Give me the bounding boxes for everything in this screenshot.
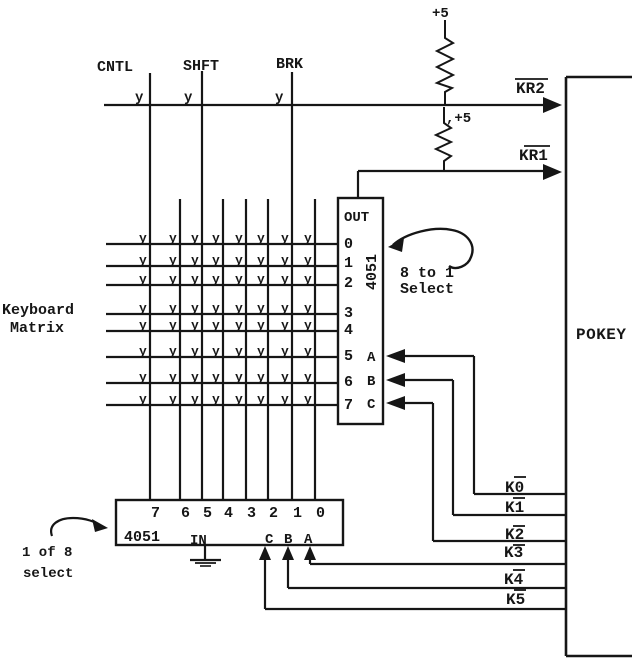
wire K2 net [433,540,566,542]
label +5 (R1 top) [432,6,449,22]
label 4051 (U1, rotated) [364,254,381,290]
svg-text:5: 5 [203,505,212,522]
svg-text:y: y [257,344,265,359]
svg-text:K2: K2 [505,526,524,544]
svg-text:Keyboard: Keyboard [2,302,74,319]
pin label C (U1) [367,397,376,413]
key y (BRK row) [275,90,284,106]
svg-text:B: B [284,532,293,548]
svg-text:y: y [235,253,243,268]
svg-text:y: y [212,370,220,385]
svg-text:K3: K3 [504,544,523,562]
arrow into U2 pin C [259,546,271,560]
arrow into U2 pin A [304,546,316,560]
svg-text:y: y [304,370,312,385]
arrow into U1 pin B [386,373,405,387]
svg-text:y: y [235,301,243,316]
svg-text:y: y [191,318,199,333]
keyboard matrix key contacts (y) [139,231,312,407]
svg-text:K4: K4 [504,571,524,589]
svg-text:y: y [304,344,312,359]
svg-text:y: y [169,231,177,246]
svg-text:y: y [139,272,147,287]
label 4051 (U2) [124,529,160,546]
arrow into POKEY (KR2) [543,97,562,113]
svg-text:7: 7 [344,397,353,414]
svg-text:y: y [281,231,289,246]
svg-text:y: y [304,301,312,316]
svg-text:y: y [304,318,312,333]
wire K0 net [474,493,566,495]
wire K1 net [453,514,566,516]
svg-text:y: y [281,253,289,268]
svg-text:select: select [23,566,73,582]
svg-text:7: 7 [151,505,160,522]
svg-text:y: y [281,318,289,333]
svg-text:y: y [235,344,243,359]
svg-text:y: y [281,344,289,359]
svg-text:4: 4 [224,505,233,522]
svg-text:y: y [212,231,220,246]
label 1 of 8 select [22,545,73,582]
label POKEY [576,326,627,344]
label K4 (overbar) [504,570,525,589]
svg-text:y: y [257,253,265,268]
svg-text:8 to 1: 8 to 1 [400,265,454,282]
svg-text:1: 1 [344,255,353,272]
label K3 (overbar) [504,544,525,562]
wire matrix column 8 (CNTL) [149,73,151,500]
svg-text:y: y [139,392,147,407]
svg-text:3: 3 [344,305,353,322]
pin label C (U2) [265,532,274,548]
annotation arrow (1 of 8 select) [51,518,108,536]
svg-text:OUT: OUT [344,210,369,226]
wire KR1 from 4051 OUT [358,171,545,199]
wire K5 net [265,558,566,609]
pin label B (U1) [367,374,376,390]
svg-text:y: y [191,370,199,385]
wire K4 net [288,558,566,588]
label KR2 (overbar) [515,79,548,98]
svg-text:y: y [212,253,220,268]
svg-text:y: y [257,231,265,246]
wire matrix column 5 (c4) [222,199,224,500]
svg-text:BRK: BRK [276,56,303,73]
svg-text:y: y [304,253,312,268]
pin label B (U2) [284,532,293,548]
svg-text:y: y [139,370,147,385]
svg-text:y: y [169,344,177,359]
svg-text:y: y [281,301,289,316]
svg-text:y: y [139,231,147,246]
svg-text:y: y [281,370,289,385]
svg-text:y: y [235,392,243,407]
svg-text:y: y [212,392,220,407]
wire matrix row 7 to 4051 pin 7 [106,404,338,406]
svg-text:0: 0 [316,505,325,522]
label BRK [276,56,303,73]
svg-text:6: 6 [344,374,353,391]
svg-text:A: A [367,350,376,366]
label KR1 (overbar) [519,146,550,165]
wire select A (U1) from K0 net [402,356,474,494]
svg-text:C: C [367,397,376,413]
wire matrix column 3 (c6) [267,199,269,500]
svg-text:K0: K0 [505,479,524,497]
wire K3 net [310,558,566,564]
svg-text:y: y [235,370,243,385]
label K1 (overbar) [505,498,525,517]
svg-text:6: 6 [181,505,190,522]
IC U2 4051 1-of-8 select box [116,500,343,545]
arrow into U1 pin A [386,349,405,363]
svg-text:y: y [304,272,312,287]
svg-text:3: 3 [247,505,256,522]
svg-text:A: A [304,532,313,548]
svg-text:y: y [257,370,265,385]
svg-text:1: 1 [293,505,302,522]
svg-text:y: y [139,253,147,268]
label 8 to 1 Select [400,265,454,298]
svg-text:y: y [235,272,243,287]
svg-text:y: y [191,253,199,268]
resistor R2 pullup KR1 [436,107,451,172]
IC POKEY box [566,77,632,656]
svg-text:+5: +5 [432,6,449,22]
svg-text:2: 2 [344,275,353,292]
label Keyboard Matrix [2,302,74,337]
label CNTL [97,59,133,76]
pin label A (U2) [304,532,313,548]
svg-text:4051: 4051 [364,254,381,290]
svg-text:y: y [235,318,243,333]
svg-text:,+5: ,+5 [446,111,471,127]
svg-text:y: y [169,392,177,407]
svg-text:4: 4 [344,322,353,339]
wire matrix column 6 (SHFT) [201,71,203,500]
svg-text:y: y [212,318,220,333]
pin numbers 0-7 (U1) [344,236,353,414]
svg-text:y: y [257,301,265,316]
label K5 (overbar) [506,590,526,609]
svg-text:y: y [184,90,193,106]
arrow into U1 pin C [386,396,405,410]
svg-text:CNTL: CNTL [97,59,133,76]
svg-text:y: y [281,272,289,287]
wire matrix row 1 to 4051 pin 1 [106,265,338,267]
svg-text:y: y [212,344,220,359]
wire matrix column 1 (c8) [314,199,316,500]
svg-text:y: y [257,272,265,287]
svg-text:0: 0 [344,236,353,253]
label K0 (overbar) [505,477,526,497]
label +5 (R2 top) [446,111,471,127]
svg-text:y: y [139,318,147,333]
wire matrix row 3 to 4051 pin 3 [106,313,338,315]
svg-text:y: y [281,392,289,407]
svg-text:4051: 4051 [124,529,160,546]
svg-text:y: y [191,272,199,287]
svg-text:y: y [139,301,147,316]
svg-text:Select: Select [400,281,454,298]
svg-text:y: y [169,301,177,316]
pin numbers 7-0 (U2) [151,505,325,522]
wire matrix row 4 to 4051 pin 4 [106,330,338,332]
wire matrix row 6 to 4051 pin 6 [106,382,338,384]
pin label A (U1) [367,350,376,366]
svg-text:K1: K1 [505,499,524,517]
pin label IN (U2) [190,533,207,549]
svg-text:KR2: KR2 [516,80,545,98]
svg-text:y: y [257,318,265,333]
svg-text:5: 5 [344,348,353,365]
wire select C (U1) from K2 net [402,403,433,541]
pin label OUT (U1) [344,210,369,226]
wire matrix column 2 (BRK) [291,72,293,500]
svg-text:y: y [135,90,144,106]
svg-text:y: y [191,392,199,407]
wire matrix row 5 to 4051 pin 5 [106,356,338,358]
svg-text:y: y [169,253,177,268]
svg-text:y: y [139,344,147,359]
svg-text:y: y [191,231,199,246]
svg-text:y: y [191,301,199,316]
svg-text:y: y [169,318,177,333]
svg-text:y: y [191,344,199,359]
wire matrix row 2 to 4051 pin 2 [106,284,338,286]
svg-text:B: B [367,374,376,390]
svg-text:Matrix: Matrix [10,320,64,337]
key y (CNTL row) [135,90,144,106]
arrow into U2 pin B [282,546,294,560]
label SHFT [183,58,219,75]
svg-text:1 of 8: 1 of 8 [22,545,72,561]
svg-text:y: y [304,231,312,246]
svg-text:y: y [212,301,220,316]
svg-text:y: y [257,392,265,407]
key y (SHFT row) [184,90,193,106]
svg-text:K5: K5 [506,591,525,609]
resistor R1 pullup KR2 [437,20,453,105]
svg-text:y: y [169,272,177,287]
label K2 (overbar) [505,526,525,544]
svg-text:C: C [265,532,274,548]
wire select B (U1) from K1 net [402,380,453,515]
ground (U2 IN) [190,545,221,566]
svg-text:2: 2 [269,505,278,522]
wire matrix column 7 (c2) [179,199,181,500]
wire matrix row 0 to 4051 pin 0 [106,243,338,245]
annotation arrow (8 to 1 select) [388,229,472,268]
svg-text:KR1: KR1 [519,147,548,165]
svg-text:y: y [275,90,284,106]
svg-text:y: y [304,392,312,407]
svg-text:y: y [169,370,177,385]
arrow into POKEY (KR1) [543,164,562,180]
wire KR2 row [104,104,545,106]
wire matrix column 4 (c5) [245,199,247,500]
svg-text:y: y [235,231,243,246]
svg-text:y: y [212,272,220,287]
svg-text:POKEY: POKEY [576,326,627,344]
IC U1 4051 8-to-1 mux box [338,198,383,424]
